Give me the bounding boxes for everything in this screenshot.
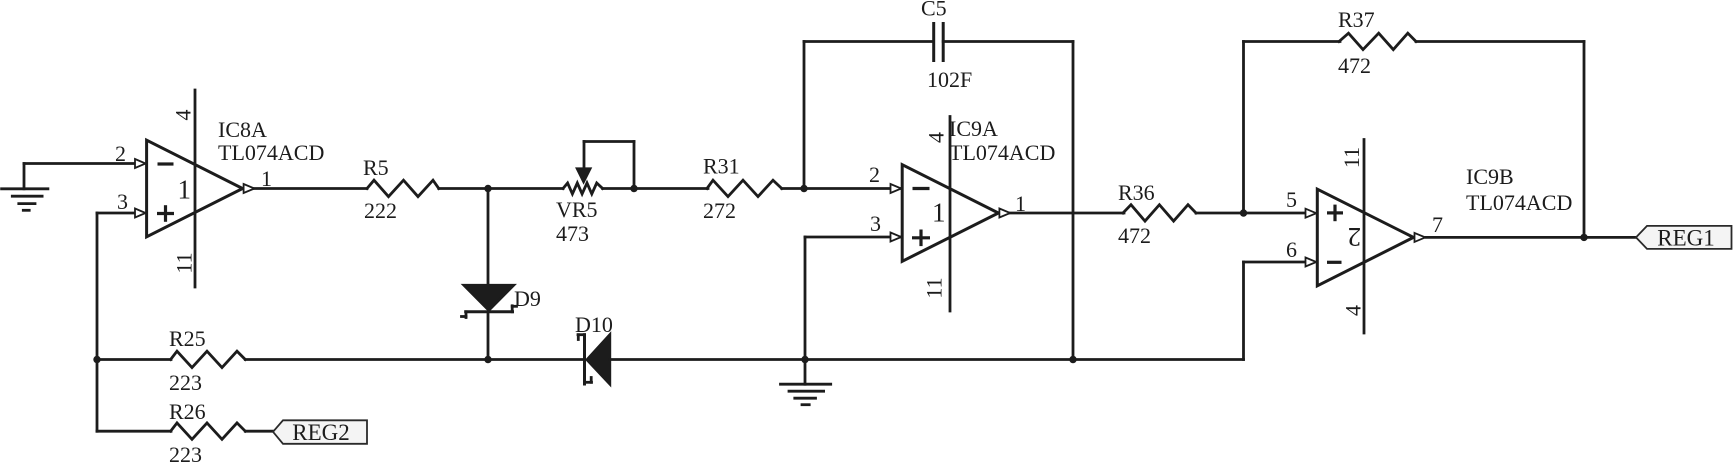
svg-text:IC9B: IC9B	[1466, 164, 1514, 189]
svg-text:4: 4	[171, 110, 196, 121]
svg-text:4: 4	[924, 132, 949, 143]
svg-text:4: 4	[1341, 305, 1366, 316]
svg-text:11: 11	[1339, 147, 1364, 168]
svg-text:223: 223	[169, 442, 202, 463]
svg-text:3: 3	[870, 211, 881, 236]
svg-text:C5: C5	[921, 0, 947, 21]
svg-text:R25: R25	[169, 326, 206, 351]
svg-text:1: 1	[932, 198, 946, 228]
svg-text:REG1: REG1	[1657, 226, 1715, 251]
svg-text:R31: R31	[703, 154, 740, 179]
svg-text:222: 222	[364, 198, 397, 223]
svg-text:472: 472	[1118, 223, 1151, 248]
svg-text:VR5: VR5	[556, 197, 598, 222]
svg-text:2: 2	[115, 141, 126, 166]
svg-text:R36: R36	[1118, 180, 1155, 205]
svg-text:223: 223	[169, 370, 202, 395]
svg-text:2: 2	[1348, 222, 1362, 252]
svg-text:IC9A: IC9A	[949, 116, 998, 141]
svg-text:472: 472	[1338, 53, 1371, 78]
svg-text:R26: R26	[169, 399, 206, 424]
svg-text:1: 1	[1015, 191, 1026, 216]
svg-text:TL074ACD: TL074ACD	[218, 140, 324, 165]
svg-text:7: 7	[1432, 212, 1443, 237]
svg-text:R5: R5	[363, 155, 389, 180]
svg-text:D10: D10	[575, 312, 613, 337]
svg-text:TL074ACD: TL074ACD	[1466, 190, 1572, 215]
svg-text:2: 2	[869, 162, 880, 187]
svg-text:11: 11	[172, 252, 197, 273]
svg-text:3: 3	[117, 189, 128, 214]
svg-text:REG2: REG2	[292, 420, 350, 445]
svg-text:R37: R37	[1338, 7, 1375, 32]
svg-text:TL074ACD: TL074ACD	[949, 140, 1055, 165]
svg-text:6: 6	[1286, 237, 1297, 262]
svg-text:1: 1	[178, 175, 192, 205]
svg-text:5: 5	[1286, 187, 1297, 212]
svg-text:D9: D9	[514, 286, 541, 311]
svg-text:11: 11	[922, 277, 947, 298]
svg-text:1: 1	[261, 166, 272, 191]
svg-text:102F: 102F	[927, 67, 972, 92]
svg-text:IC8A: IC8A	[218, 117, 267, 142]
svg-text:272: 272	[703, 198, 736, 223]
svg-text:473: 473	[556, 221, 589, 246]
